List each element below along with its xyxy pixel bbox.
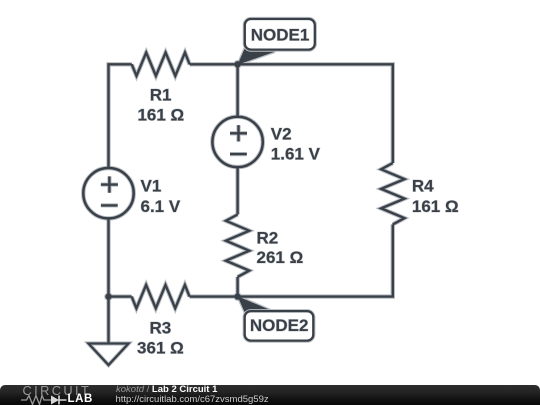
svg-text:V1: V1	[141, 177, 162, 196]
svg-text:161 Ω: 161 Ω	[137, 105, 184, 124]
svg-text:361 Ω: 361 Ω	[137, 339, 184, 358]
svg-text:1.61 V: 1.61 V	[271, 144, 321, 163]
svg-text:161 Ω: 161 Ω	[412, 197, 459, 216]
svg-text:R2: R2	[257, 228, 279, 247]
svg-text:V2: V2	[271, 125, 292, 144]
svg-text:261 Ω: 261 Ω	[257, 248, 304, 267]
svg-text:R1: R1	[150, 86, 172, 105]
svg-text:NODE2: NODE2	[250, 316, 309, 335]
svg-text:R4: R4	[412, 177, 434, 196]
svg-text:6.1 V: 6.1 V	[141, 197, 181, 216]
svg-text:NODE1: NODE1	[251, 25, 310, 44]
svg-text:R3: R3	[150, 319, 172, 338]
